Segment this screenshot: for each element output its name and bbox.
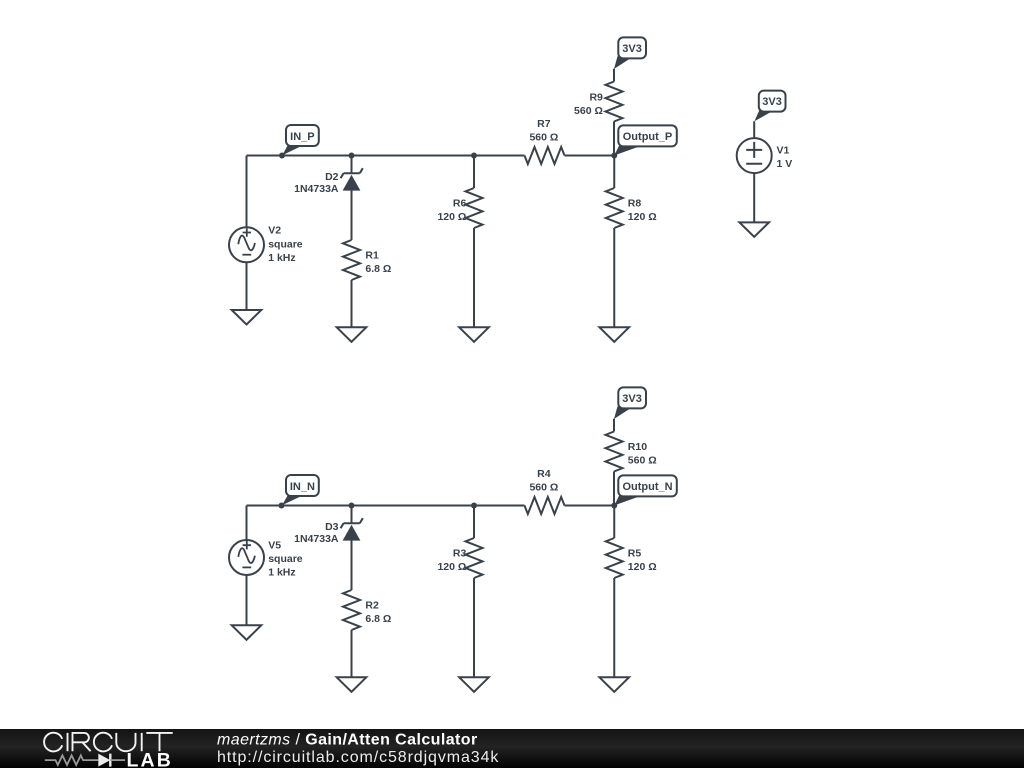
resistor R1 6.8 Ω — [343, 240, 391, 280]
wire R1 to ground — [351, 280, 353, 327]
wire node to R6 — [473, 156, 475, 189]
svg-text:560 Ω: 560 Ω — [628, 454, 657, 466]
wire R9 to Output_P node — [613, 122, 615, 156]
svg-text:1 V: 1 V — [777, 158, 793, 170]
svg-text:1 kHz: 1 kHz — [268, 252, 295, 264]
svg-text:560 Ω: 560 Ω — [529, 132, 558, 144]
wire 3V3 flag to R10 — [613, 419, 615, 432]
wire 3V3 flag to R9 — [613, 69, 615, 82]
CircuitLab logo word CIRCUIT — [44, 733, 173, 752]
node dot D3 junction — [349, 503, 355, 509]
zener diode D2 1N4733A — [294, 168, 363, 195]
svg-text:R4: R4 — [537, 468, 551, 480]
svg-text:3V3: 3V3 — [762, 96, 782, 108]
svg-text:Output_P: Output_P — [623, 131, 673, 143]
svg-text:R6: R6 — [453, 197, 467, 209]
wire D2 anode to R1 — [351, 191, 353, 241]
net flag IN_N — [282, 475, 319, 505]
zener diode D3 1N4733A — [294, 518, 363, 545]
svg-text:LAB: LAB — [127, 749, 173, 768]
svg-text:maertzms / Gain/Atten Calculat: maertzms / Gain/Atten Calculator — [217, 732, 478, 749]
ground below R6 — [459, 327, 489, 342]
voltage source V2 square 1 kHz — [229, 225, 303, 264]
logo diode — [98, 754, 110, 767]
wire V2 bottom to ground — [246, 262, 248, 310]
wire R5 to ground — [613, 578, 615, 677]
svg-text:120 Ω: 120 Ω — [628, 561, 657, 573]
svg-text:R3: R3 — [453, 547, 467, 559]
svg-text:R8: R8 — [628, 197, 642, 209]
svg-text:R1: R1 — [365, 249, 379, 261]
svg-text:IN_N: IN_N — [290, 481, 315, 493]
svg-text:R9: R9 — [589, 91, 603, 103]
svg-text:D3: D3 — [325, 521, 339, 533]
ground below R1 — [337, 327, 367, 342]
svg-text:120 Ω: 120 Ω — [437, 561, 466, 573]
wire R7 right lead to Output_P node — [565, 155, 615, 157]
svg-text:R10: R10 — [628, 441, 647, 453]
wire node to R3 — [473, 506, 475, 539]
svg-text:560 Ω: 560 Ω — [529, 482, 558, 494]
wire D3 anode to R2 — [351, 541, 353, 591]
svg-text:square: square — [268, 239, 303, 251]
resistor R7 560 Ω — [525, 118, 565, 164]
net flag 3V3 top — [614, 37, 646, 69]
svg-text:IN_P: IN_P — [290, 131, 314, 143]
svg-text:6.8 Ω: 6.8 Ω — [365, 263, 391, 275]
wire V5 bottom to ground — [246, 575, 248, 625]
svg-text:560 Ω: 560 Ω — [574, 105, 603, 117]
wire main horizontal IN_N net — [247, 505, 525, 507]
resistor R3 120 Ω — [437, 538, 482, 578]
wire V2 top lead — [246, 156, 248, 228]
node dot Output_N junction — [611, 503, 617, 509]
svg-text:V2: V2 — [268, 225, 281, 237]
footer black bar — [0, 729, 1024, 768]
ground below V2 — [232, 310, 262, 325]
resistor R5 120 Ω — [606, 538, 657, 578]
ground below R8 — [599, 327, 629, 342]
wire R6 to ground — [473, 228, 475, 327]
svg-text:1 kHz: 1 kHz — [268, 567, 295, 579]
wire R8 to ground — [613, 228, 615, 327]
net flag Output_N — [614, 475, 676, 505]
svg-text:http://circuitlab.com/c58rdjqv: http://circuitlab.com/c58rdjqvma34k — [217, 749, 499, 766]
wire node to D2 cathode — [351, 156, 353, 174]
svg-text:3V3: 3V3 — [622, 393, 642, 405]
ground below R3 — [459, 677, 489, 692]
logo resistor squiggle — [45, 755, 99, 765]
svg-text:V5: V5 — [268, 539, 281, 551]
svg-text:120 Ω: 120 Ω — [628, 211, 657, 223]
resistor R8 120 Ω — [606, 188, 657, 228]
resistor R9 560 Ω — [574, 82, 622, 122]
resistor R10 560 Ω — [606, 432, 657, 472]
wire Output_P node to R8 — [613, 156, 615, 189]
ground below V1 — [739, 222, 769, 237]
svg-text:3V3: 3V3 — [622, 43, 642, 55]
node dot Output_P junction — [611, 153, 617, 159]
ground below V5 — [232, 625, 262, 640]
voltage source V5 square 1 kHz — [229, 539, 303, 578]
wire main horizontal IN_P net — [247, 155, 525, 157]
svg-text:D2: D2 — [325, 171, 339, 183]
node dot R6 junction — [471, 153, 477, 159]
resistor R6 120 Ω — [437, 188, 482, 228]
svg-text:R2: R2 — [365, 599, 379, 611]
node dot IN_P — [279, 153, 285, 159]
net flag Output_P — [614, 125, 676, 155]
net flag 3V3 bottom — [614, 387, 646, 419]
wire Output_N node to R5 — [613, 506, 615, 539]
svg-text:6.8 Ω: 6.8 Ω — [365, 613, 391, 625]
net flag IN_P — [282, 125, 319, 155]
wire R10 to Output_N node — [613, 472, 615, 506]
node dot D2 junction — [349, 153, 355, 159]
wire R2 to ground — [351, 630, 353, 677]
svg-text:R5: R5 — [628, 547, 642, 559]
node dot IN_N — [279, 503, 285, 509]
svg-text:120 Ω: 120 Ω — [437, 211, 466, 223]
wire R3 to ground — [473, 578, 475, 677]
svg-text:square: square — [268, 553, 303, 565]
svg-text:Output_N: Output_N — [622, 481, 672, 493]
wire node to D3 cathode — [351, 506, 353, 524]
node dot R3 junction — [471, 503, 477, 509]
svg-text:1N4733A: 1N4733A — [294, 183, 339, 195]
svg-text:R7: R7 — [537, 118, 551, 130]
wire V5 top lead — [246, 506, 248, 541]
svg-text:V1: V1 — [777, 144, 790, 156]
wire R4 right lead to Output_N node — [565, 505, 615, 507]
resistor R2 6.8 Ω — [343, 590, 391, 630]
ground below R2 — [337, 677, 367, 692]
voltage source V1 1 V with 3V3 flag — [737, 91, 793, 223]
resistor R4 560 Ω — [525, 468, 565, 514]
ground below R5 — [599, 677, 629, 692]
svg-text:1N4733A: 1N4733A — [294, 533, 339, 545]
